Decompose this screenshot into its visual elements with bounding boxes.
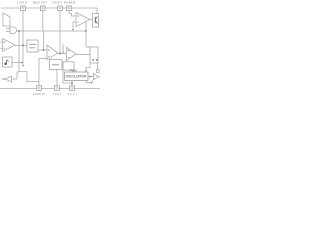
svg-text:PH MLB: PH MLB: [64, 0, 75, 4]
wire x86 feedback vertical: [85, 22, 87, 47]
wire into box D top: [86, 46, 90, 48]
pin P3: [58, 6, 63, 11]
wire box1 to opamp B: [38, 49, 47, 51]
wire A1 output: [15, 44, 27, 46]
pin B1: [37, 86, 42, 91]
wire P2 stem to feedback bus: [42, 10, 44, 31]
sign A2 plus: [77, 15, 79, 17]
node P3 join: [59, 53, 61, 55]
op-amp A2: [76, 13, 90, 27]
wire right border segment: [96, 8, 98, 14]
arrow P1 net end: [22, 65, 24, 67]
svg-text:1 AOUT: 1 AOUT: [17, 0, 28, 4]
wire P1 stem: [22, 10, 24, 65]
wire x19 net down: [19, 31, 39, 82]
block box F: [63, 62, 74, 70]
svg-text:COMP IN: COMP IN: [33, 93, 45, 96]
wire A1 input stubs: [1, 41, 3, 43]
inverter bubble: [4, 78, 6, 80]
buffer N2: [94, 74, 99, 80]
sign C plus: [68, 50, 70, 52]
transistor Q1 glyph in box G: [5, 60, 9, 65]
arrow A2 stub into bus: [72, 29, 74, 31]
wire bottom border: [0, 88, 100, 90]
label boxE text: [52, 64, 59, 66]
wire P4 jog to opamp A2: [69, 10, 76, 16]
node feedback: [85, 30, 87, 32]
node osc out: [89, 76, 91, 78]
sign B plus: [48, 49, 50, 51]
block box1: [27, 40, 38, 52]
arrow feedback into buffer lower: [91, 82, 92, 84]
svg-text:OSCILLATOR: OSCILLATOR: [66, 75, 87, 79]
label box D marks: [92, 59, 97, 60]
wire P3 stem: [59, 10, 61, 53]
oscillator box: [65, 72, 88, 81]
pin B2: [55, 86, 60, 91]
wire B output to C: [58, 53, 67, 55]
wire x63 branch to comparator C: [62, 44, 64, 52]
wire A2 minus down to bus: [72, 22, 74, 30]
pin B3: [70, 86, 75, 91]
block right border pad: [96, 69, 99, 72]
wire B3 stem: [71, 81, 73, 86]
node A1out-P1: [22, 44, 24, 46]
svg-text:2 AOUT: 2 AOUT: [52, 0, 62, 4]
node and-out: [18, 30, 20, 32]
wire B lower input from B1 net: [39, 57, 47, 86]
svg-text:OSC1: OSC1: [67, 93, 78, 96]
transistor Q2 glyph: [95, 17, 97, 24]
sign B minus: [48, 56, 50, 58]
inverter N1: [5, 76, 11, 82]
wire top border: [1, 7, 97, 9]
node B3: [71, 82, 73, 84]
wire buffer out stub: [98, 76, 100, 78]
wire branch down to opamp B: [43, 31, 45, 50]
block box G: [3, 57, 13, 67]
arrow into x23 net: [21, 62, 23, 64]
sign A1 minus: [4, 48, 6, 50]
wire and output: [17, 30, 87, 32]
block box E: [50, 60, 63, 70]
opamp sign marks: [4, 15, 79, 57]
wire C output to box D: [76, 54, 90, 56]
wire B2 stem: [56, 70, 58, 86]
sign A1 plus: [4, 41, 6, 43]
junction dots: [18, 30, 91, 84]
pin P1: [21, 6, 26, 11]
wire inverter left stub: [2, 78, 4, 80]
wire buffer lower vertical: [91, 80, 93, 83]
wire osc to buffer: [88, 76, 94, 78]
wire inverter to x19 net: [12, 72, 20, 79]
wire A2 out: [90, 19, 93, 21]
wire osc bottom feedback to buffer: [86, 81, 91, 83]
node opampB plus: [43, 49, 45, 51]
wire box D bottom jog to oscillator: [86, 63, 90, 71]
pin number marks: [23, 7, 73, 89]
wire and input stubs: [6, 28, 10, 30]
svg-text:TEST: TEST: [53, 93, 62, 96]
wire boxF to B3: [63, 70, 72, 83]
arrow x63 into C input: [62, 52, 64, 54]
pin P2: [40, 6, 45, 11]
svg-text:MULT OUT: MULT OUT: [33, 0, 47, 4]
and gate G1: [10, 27, 17, 34]
wire box D right stub down: [97, 63, 99, 69]
op-amp C: [67, 48, 77, 61]
sign C minus: [68, 57, 70, 59]
label box1 text rows: [29, 44, 36, 48]
dac trapezoid: [3, 13, 10, 26]
sign A2 minus: [77, 21, 79, 23]
block driver box top right: [93, 14, 99, 28]
pin P4: [67, 6, 72, 11]
op-amp A1: [3, 39, 16, 52]
wire A2 minus stub: [73, 21, 76, 23]
op-amp B: [47, 45, 58, 60]
arrow into oscillator top: [85, 70, 87, 72]
wire box G output: [12, 62, 22, 64]
block box D: [90, 47, 98, 63]
